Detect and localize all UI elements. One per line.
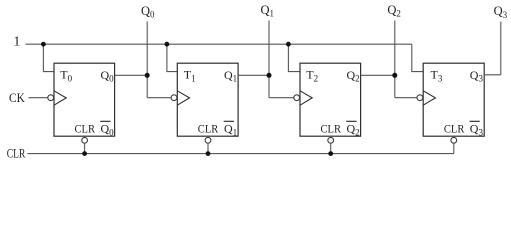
wire Q1 vertical <box>268 21 270 98</box>
flip-flop T2 <box>300 63 361 137</box>
wire Q1 output <box>238 74 269 76</box>
wire 1-net drop to T3 <box>412 44 423 71</box>
svg-text:CLR: CLR <box>7 145 26 160</box>
wire CLR drop T3 <box>453 143 455 153</box>
wire Q1 to clock bubble of T2 <box>269 97 294 99</box>
clock bubble T3 <box>417 95 423 101</box>
wire CLR drop T2 <box>330 143 332 153</box>
wire Q0 output <box>115 74 148 76</box>
clock bubble T2 <box>294 95 300 101</box>
flip-flop T1 <box>177 63 238 137</box>
junction CLR/T0 <box>82 151 87 156</box>
flip-flop T0 <box>54 63 115 137</box>
junction Q2 <box>392 73 397 78</box>
clear bubble T3 <box>451 137 457 143</box>
svg-text:CLR: CLR <box>321 124 342 136</box>
wire CLR-net horizontal <box>27 153 453 155</box>
node Q0 (top output label) <box>141 4 155 20</box>
junction 1-net/T2 <box>286 42 291 47</box>
clear bubble T0 <box>82 137 88 143</box>
node CLR (clear input label) <box>7 145 26 160</box>
junction CLR/T1 <box>206 151 211 156</box>
wire Q2 output <box>361 74 395 76</box>
wire Q2 vertical <box>394 21 396 98</box>
node CK (clock input label) <box>9 90 25 105</box>
node 1 (logic-high input label) <box>14 33 21 48</box>
flip-flop T3 <box>423 63 484 137</box>
wire CLR drop T0 <box>84 143 86 153</box>
wire Q3 vertical <box>500 22 502 75</box>
wire 1-net drop to T1 <box>167 44 177 71</box>
wire Q0 to clock bubble of T1 <box>147 97 170 99</box>
wire 1-net drop to T2 <box>288 44 300 71</box>
junction 1-net/T0 <box>41 42 46 47</box>
wire 1-net horizontal <box>26 43 412 45</box>
wire 1-net drop to T0 <box>43 44 54 71</box>
clock bubble T0 <box>48 95 54 101</box>
junction Q1 <box>267 73 272 78</box>
node Q2 (top output label) <box>387 3 401 19</box>
junction 1-net/T1 <box>165 42 170 47</box>
wire Q0 vertical <box>146 22 148 98</box>
node Q1 (top output label) <box>261 3 275 19</box>
svg-text:CLR: CLR <box>198 124 219 136</box>
wire CK to clock bubble of T0 <box>29 97 48 99</box>
svg-text:CLR: CLR <box>75 124 96 136</box>
svg-text:1: 1 <box>14 33 21 48</box>
clear bubble T1 <box>205 137 211 143</box>
wire CLR drop T1 <box>207 143 209 153</box>
svg-text:CLR: CLR <box>444 124 465 136</box>
wire Q3 output <box>484 74 501 76</box>
clock bubble T1 <box>171 95 177 101</box>
wire Q2 to clock bubble of T3 <box>395 97 417 99</box>
clear bubble T2 <box>328 137 334 143</box>
junction CLR/T2 <box>328 151 333 156</box>
node Q3 (top output label) <box>494 4 508 20</box>
svg-text:CK: CK <box>9 90 25 105</box>
junction Q0 <box>145 73 150 78</box>
